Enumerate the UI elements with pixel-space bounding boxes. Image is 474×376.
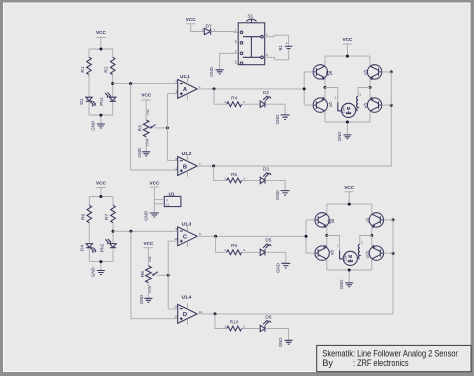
ground for U1 power — [144, 211, 159, 221]
node H-bridge 2 right midpoint — [370, 234, 373, 237]
node H-bridge 2 left midpoint — [325, 234, 328, 237]
ground for switch — [209, 67, 224, 77]
photodiode Ph1 — [99, 93, 116, 116]
transistor Q7 — [365, 213, 383, 236]
node Q4 base — [390, 104, 393, 107]
potentiometer R3 — [138, 120, 168, 137]
svg-text:D6: D6 — [265, 314, 271, 320]
potentiometer R8 — [140, 266, 168, 283]
resistor R1 — [80, 57, 91, 97]
wire U1.3 output to H-bridge 2 left rail — [197, 235, 306, 237]
svg-text:GND: GND — [278, 338, 283, 348]
svg-text:Ph1: Ph1 — [99, 97, 105, 106]
op-amp U1.3 — [174, 221, 201, 247]
svg-text:R1: R1 — [80, 66, 86, 72]
node H-bridge 1 VCC — [346, 55, 349, 58]
VCC symbol for U1 power — [149, 180, 160, 213]
ground for R8 — [139, 283, 152, 304]
wire sensor 2 tap to U1.3 inverting input — [113, 230, 178, 232]
node U1.1 output branch — [213, 87, 216, 90]
svg-text:D4: D4 — [79, 245, 85, 251]
wire U1.2 output to H-bridge 1 right rail — [197, 105, 391, 166]
svg-text:GND: GND — [275, 190, 280, 200]
svg-text:B1: B1 — [278, 45, 283, 51]
wire motor 2 right terminal — [360, 236, 372, 245]
LED D6 — [260, 314, 288, 340]
svg-text:M: M — [347, 106, 351, 111]
svg-text:U1.4: U1.4 — [182, 295, 192, 300]
wire U1.4 output to H-bridge 2 right rail — [197, 253, 393, 314]
node U1.3 output branch — [214, 235, 217, 238]
node H-bridge 2 ground — [348, 269, 351, 272]
svg-text:Q5: Q5 — [326, 71, 333, 77]
svg-text:GND: GND — [137, 148, 142, 158]
svg-text:Skematik: Line Follower Analog: Skematik: Line Follower Analog 2 Sensor — [322, 348, 458, 358]
VCC symbol for pot R8 — [143, 241, 154, 266]
svg-text:U1: U1 — [169, 192, 175, 197]
svg-text:D5: D5 — [265, 238, 271, 244]
wire top rail sensor block 1 — [89, 49, 113, 57]
svg-text:R8: R8 — [140, 271, 146, 277]
svg-text:M: M — [348, 254, 352, 259]
wire R3 wiper to U1.1 plus and U1.2 minus — [167, 93, 177, 160]
svg-text:10: 10 — [174, 237, 178, 241]
wire inductor to motor 1 — [356, 110, 358, 112]
svg-text:U1.2: U1.2 — [182, 151, 192, 156]
op-amp power part U1 — [154, 192, 181, 207]
photodiode Ph2 — [99, 239, 116, 262]
motor MG1 — [341, 103, 356, 117]
node sensor 2 tap — [112, 230, 115, 233]
svg-text:B: B — [183, 164, 187, 170]
wire U1.1 output to H-bridge 1 left rail — [197, 88, 304, 90]
node R8 wiper — [167, 274, 170, 277]
svg-text:GND: GND — [90, 121, 95, 131]
wire bottom rail sensor block 2 — [89, 262, 113, 271]
svg-text:CCW: CCW — [148, 286, 152, 293]
ground for R3 — [137, 137, 150, 158]
node tap junction to U1.2 — [129, 82, 132, 85]
node Q10 base — [392, 252, 395, 255]
node H-bridge 1 drive left — [303, 87, 306, 90]
motor MG2 — [343, 251, 358, 265]
svg-text:GND: GND — [337, 132, 342, 142]
wire H-bridge 2 bottom rail — [327, 270, 372, 283]
wire branch down to R9 — [216, 236, 227, 252]
svg-text:D: D — [183, 312, 187, 318]
resistor R9 — [224, 243, 260, 255]
LED D1 — [79, 97, 96, 115]
H-bridge 1 VCC symbol — [342, 37, 353, 56]
svg-text:R9: R9 — [231, 243, 237, 249]
svg-text:Q8: Q8 — [328, 219, 335, 225]
svg-text:GND: GND — [90, 267, 95, 277]
svg-text:R5: R5 — [231, 172, 237, 178]
transistor Q9 — [315, 236, 335, 271]
svg-text:CCW: CCW — [146, 139, 150, 146]
inductor motor 2 winding — [358, 244, 359, 259]
node bottom rail 2 — [99, 260, 102, 263]
wire motor 1 right terminal — [358, 88, 370, 97]
svg-text:R10: R10 — [230, 320, 239, 326]
LED D3 — [260, 167, 285, 191]
svg-text:Q9: Q9 — [330, 250, 335, 256]
transistor Q6 — [313, 88, 333, 123]
svg-text:14: 14 — [199, 310, 203, 314]
wire H-bridge 1 top rail — [325, 56, 370, 65]
ground sensor block 1 — [90, 121, 105, 131]
transistor Q5 — [313, 65, 332, 88]
svg-text:Q7: Q7 — [365, 218, 370, 224]
wire bottom rail sensor block 1 — [89, 115, 113, 124]
wire H-bridge 1 left base rail — [304, 72, 313, 105]
svg-text:U1.1: U1.1 — [180, 74, 190, 79]
wire motor 2 left terminal — [327, 236, 340, 251]
svg-text:GND: GND — [144, 211, 149, 221]
LED D2 — [260, 90, 285, 115]
svg-text:VCC: VCC — [149, 180, 160, 185]
transistor Q10 — [365, 236, 383, 271]
VCC symbol power input — [186, 17, 205, 32]
svg-text:VCC: VCC — [141, 93, 152, 98]
svg-text:GND: GND — [275, 115, 280, 125]
svg-text:MG1: MG1 — [341, 107, 345, 114]
wire R8 wiper to U1.3 plus and U1.4 minus — [168, 241, 178, 309]
wire tap down to U1.4 non-inverting input — [131, 231, 178, 318]
title block — [317, 345, 471, 371]
node H-bridge 1 ground — [346, 121, 349, 124]
switch S1 — [235, 14, 270, 65]
battery B1 — [269, 40, 292, 59]
wire H-bridge 1 bottom rail — [325, 122, 370, 135]
node H-bridge 2 VCC — [348, 203, 351, 206]
node tap junction to U1.4 — [129, 230, 132, 233]
svg-text:: ZRF electronics: : ZRF electronics — [353, 358, 409, 368]
transistor Q4 — [364, 88, 382, 123]
transistor Q8 — [315, 213, 334, 236]
svg-text:GND: GND — [339, 280, 344, 290]
svg-text:D1: D1 — [79, 98, 85, 104]
svg-text:Q4: Q4 — [364, 103, 369, 109]
transistor Q3 — [364, 65, 382, 88]
node H-bridge 2 drive left — [305, 235, 308, 238]
wire tap down to U1.2 non-inverting input — [131, 84, 178, 170]
VCC symbol sensor block 1 — [96, 30, 107, 49]
svg-text:13: 13 — [174, 305, 178, 309]
ground H-bridge 2 — [339, 280, 353, 290]
wire branch down to R5 — [214, 166, 227, 180]
VCC symbol sensor block 2 — [96, 181, 107, 197]
wire branch down to R10 — [215, 314, 227, 329]
resistor R4 — [224, 95, 260, 106]
wire branch down to R4 — [214, 89, 227, 104]
svg-text:CW: CW — [146, 109, 150, 114]
node VCC rail 1 — [99, 48, 102, 51]
wire H-bridge 2 left base rail — [306, 220, 315, 253]
node VCC rail 2 — [99, 195, 102, 198]
ground H-bridge 1 — [337, 132, 351, 142]
node U1.2 output branch — [212, 165, 215, 168]
wire sensor 1 tap to U1.1 inverting input — [113, 83, 178, 85]
op-amp U1.4 — [174, 295, 202, 325]
inductor motor 1 winding — [357, 96, 358, 111]
LED D4 — [79, 244, 96, 262]
svg-text:11: 11 — [166, 203, 169, 207]
H-bridge 2 VCC symbol — [344, 185, 355, 204]
svg-text:12: 12 — [174, 314, 178, 318]
ground after D6 — [278, 338, 293, 348]
resistor R5 — [224, 172, 260, 183]
node sensor 1 tap — [111, 82, 114, 85]
wire motor 1 left terminal — [325, 88, 338, 103]
wire inductor to motor 2 — [357, 258, 359, 260]
svg-text:Q10: Q10 — [365, 251, 370, 259]
svg-text:Ph2: Ph2 — [99, 243, 105, 252]
wire top rail sensor block 2 — [89, 197, 113, 206]
svg-text:R4: R4 — [231, 95, 237, 101]
svg-text:CW: CW — [148, 256, 152, 261]
node Q7 base — [392, 218, 395, 221]
svg-text:VCC: VCC — [344, 185, 355, 190]
svg-text:U1.3: U1.3 — [182, 221, 192, 226]
wire H-bridge 2 top rail — [327, 204, 372, 213]
ground after D5 — [276, 263, 291, 273]
svg-text:R2: R2 — [104, 66, 110, 72]
svg-text:D2: D2 — [263, 90, 269, 96]
node Q3 base — [390, 70, 393, 73]
svg-text:By: By — [322, 358, 333, 368]
ground after D2 — [275, 115, 290, 125]
node H-bridge 1 right midpoint — [369, 86, 372, 89]
wire switch to battery top — [269, 35, 289, 46]
resistor R7 — [104, 205, 115, 243]
svg-text:GND: GND — [276, 263, 281, 273]
svg-text:R7: R7 — [104, 214, 110, 220]
node U1.4 output branch — [214, 312, 217, 315]
resistor R10 — [224, 320, 260, 331]
svg-text:GND: GND — [209, 67, 214, 77]
svg-text:D3: D3 — [263, 167, 269, 173]
wire H-bridge 2 right base rail — [384, 220, 394, 253]
wire switch pin to ground — [220, 53, 239, 70]
VCC symbol for pot R3 — [141, 93, 152, 121]
ground after D3 — [275, 190, 290, 200]
op-amp U1.2 — [176, 151, 202, 177]
svg-text:VCC: VCC — [342, 37, 353, 42]
op-amp U1.1 — [176, 74, 202, 100]
svg-text:VCC: VCC — [96, 181, 107, 186]
wire H-bridge 1 right base rail — [382, 72, 392, 105]
svg-text:R3: R3 — [138, 125, 144, 131]
node H-bridge 1 left midpoint — [324, 86, 327, 89]
svg-text:VCC: VCC — [143, 241, 154, 246]
svg-text:Q6: Q6 — [328, 102, 333, 108]
svg-text:MG2: MG2 — [343, 255, 347, 262]
svg-text:R6: R6 — [80, 214, 86, 220]
LED D5 — [260, 238, 286, 264]
svg-text:Q3: Q3 — [364, 70, 369, 76]
svg-text:VCC: VCC — [96, 30, 107, 35]
diode D7 — [202, 23, 238, 34]
svg-text:GND: GND — [139, 295, 144, 305]
ground sensor block 2 — [90, 267, 105, 277]
node R3 wiper — [166, 126, 169, 129]
node bottom rail 1 — [99, 114, 102, 117]
resistor R2 — [104, 57, 115, 97]
resistor R6 — [80, 205, 91, 243]
svg-text:VCC: VCC — [186, 17, 197, 22]
